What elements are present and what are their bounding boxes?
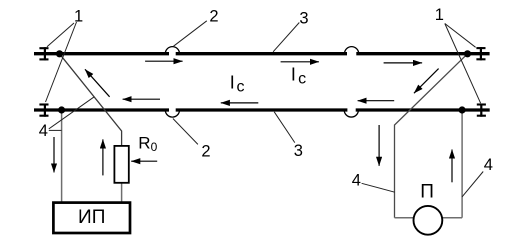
current arrow (bottom rail, left, leftward): [123, 98, 160, 100]
wire (relay bottom wire): [395, 217, 463, 219]
rail bond 2 (top rail left, arc above gap): [165, 47, 179, 54]
leader 3 top to rail: [273, 23, 299, 52]
rail bond 2 (bottom rail right, arc below gap): [344, 110, 358, 117]
svg-text:ИП: ИП: [78, 207, 105, 228]
svg-text:3: 3: [294, 142, 303, 160]
resistor R0: [114, 146, 128, 183]
rail 3 (top rail, middle segment): [176, 52, 347, 55]
wire (supply end, bottom rail tap down to supply box): [61, 110, 63, 203]
insulating joint 1 (top rail, left end): [39, 47, 48, 60]
leader 4 left to supply wire: [49, 129, 62, 131]
wire (R0 bottom to supply box): [121, 183, 123, 203]
leader 2 bottom to bond: [173, 119, 198, 145]
current arrow (bottom rail, middle, leftward): [221, 102, 258, 104]
current arrow (supply left wire, downward): [53, 137, 55, 172]
node (top rail, supply tap): [56, 50, 63, 57]
rail 3 (bottom rail, right segment): [356, 108, 490, 111]
wire (supply end, top rail tap: diagonal down to R0 branch): [60, 54, 122, 146]
current arrow (top rail, left, rightward): [145, 60, 183, 62]
rail 3 (bottom rail, middle segment): [176, 108, 348, 111]
svg-text:4: 4: [39, 122, 48, 140]
leader 1 left to top joint: [47, 23, 74, 47]
node (bottom rail, supply tap): [58, 106, 65, 113]
leader 2 top to bond: [174, 21, 207, 46]
rail 3 (top rail, left segment): [34, 52, 169, 55]
current arrow (relay right wire, upward): [451, 150, 453, 183]
node (bottom rail, relay tap): [459, 106, 466, 113]
current arrow (R0 branch, upward): [102, 139, 104, 175]
leader 3 bottom to rail: [274, 112, 295, 143]
svg-text:П: П: [420, 182, 434, 203]
current arrow (relay left wire, downward): [378, 125, 380, 166]
current arrow (top rail, right, rightward): [384, 62, 423, 64]
leader 4 left to diagonal wire: [49, 97, 94, 129]
svg-text:1: 1: [74, 8, 83, 26]
insulating joint 1 (bottom rail, left end): [39, 104, 48, 117]
current arrow (bottom rail, right, leftward): [358, 100, 395, 102]
wire (relay end, bottom rail tap down to relay): [461, 110, 463, 218]
svg-text:2: 2: [201, 143, 210, 161]
insulating joint 1 (bottom rail, right end): [477, 104, 486, 117]
current arrow (supply diagonal wire, up-left): [85, 69, 110, 97]
power supply ИП: [53, 203, 130, 233]
node (top rail, relay tap): [464, 50, 471, 57]
pointer arrow at R0 (leftward): [131, 160, 157, 162]
leader 4 relay left wire: [362, 183, 395, 192]
rail bond 2 (top rail right, arc above gap): [345, 47, 359, 54]
leader 4 relay right wire: [462, 172, 483, 197]
svg-text:4: 4: [484, 156, 493, 174]
leader 1 right to top joint: [445, 24, 476, 48]
wire (relay end, top rail tap: diagonal down to left relay wire): [395, 54, 468, 218]
current arrow (relay diagonal wire, down-left): [414, 69, 439, 94]
svg-text:1: 1: [435, 6, 444, 24]
leader 1 left to bottom joint: [46, 22, 77, 102]
svg-text:2: 2: [209, 7, 218, 25]
track relay П (coil circle): [414, 206, 443, 235]
rail 3 (bottom rail, left segment): [34, 108, 169, 111]
svg-text:3: 3: [299, 10, 308, 28]
insulating joint 1 (top rail, right end): [476, 47, 485, 60]
rail 3 (top rail, right segment): [356, 52, 489, 55]
svg-text:4: 4: [352, 172, 361, 190]
leader 1 right to bottom joint: [445, 24, 481, 104]
rail bond 2 (bottom rail left, arc below gap): [165, 110, 179, 117]
current arrow (top rail, middle, rightward): [281, 61, 319, 63]
